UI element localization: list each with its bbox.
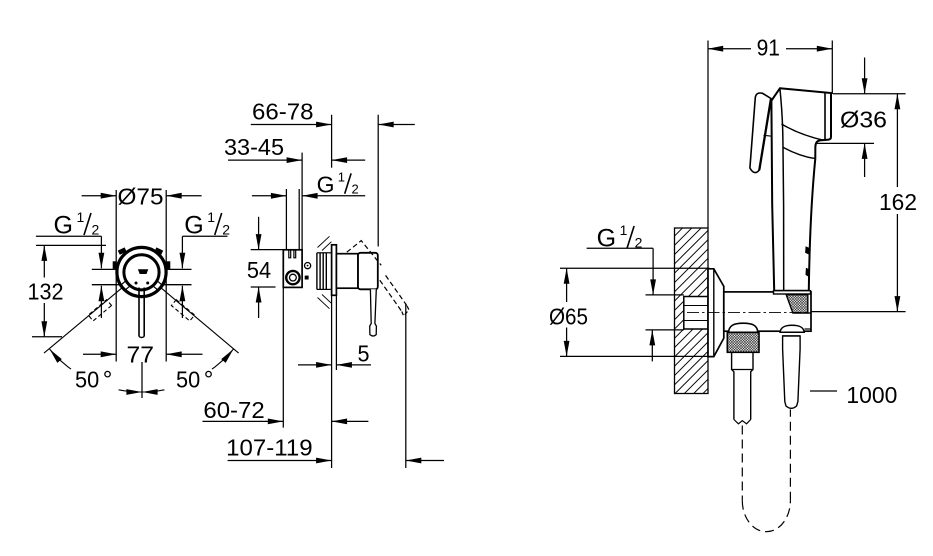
svg-text:33-45: 33-45 [224,134,284,160]
svg-text:54: 54 [247,257,271,283]
svg-text:60-72: 60-72 [203,397,264,423]
svg-text:2: 2 [352,181,359,196]
svg-text:2: 2 [635,235,643,251]
svg-text:1000: 1000 [846,382,897,408]
svg-text:Ø65: Ø65 [549,304,588,330]
svg-text:Ø75: Ø75 [118,184,164,210]
svg-text:G: G [597,225,616,253]
svg-text:107-119: 107-119 [226,435,312,461]
svg-text:50: 50 [75,367,99,393]
svg-text:1: 1 [338,170,345,185]
svg-text:°: ° [103,367,113,394]
svg-text:°: ° [204,367,214,394]
svg-text:Ø36: Ø36 [840,107,887,133]
svg-text:G: G [184,212,203,240]
svg-text:G: G [54,212,73,240]
svg-text:50: 50 [176,367,200,393]
svg-text:66-78: 66-78 [252,98,314,124]
svg-text:132: 132 [28,279,64,305]
svg-text:2: 2 [222,222,230,238]
svg-text:5: 5 [358,341,370,367]
svg-text:162: 162 [879,189,917,215]
svg-text:91: 91 [757,35,780,61]
svg-text:77: 77 [127,342,155,368]
svg-text:2: 2 [92,222,100,238]
svg-text:1: 1 [620,222,628,238]
svg-text:1: 1 [77,209,85,225]
svg-text:G: G [317,171,335,197]
svg-text:1: 1 [207,209,215,225]
